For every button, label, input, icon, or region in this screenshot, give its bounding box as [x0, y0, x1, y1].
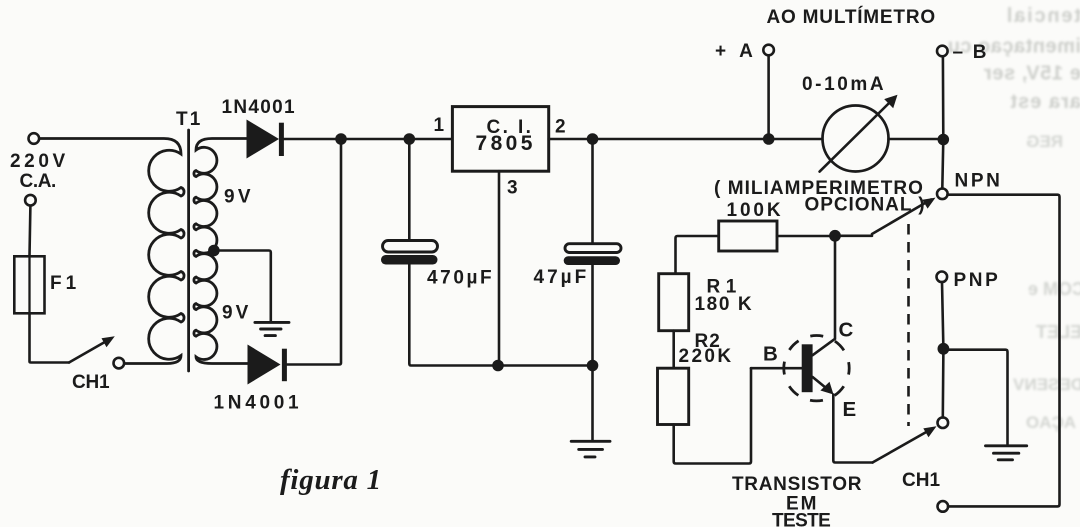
svg-text:9 V: 9 V: [224, 187, 251, 208]
wire: main +V rail (D1 to 7805 pin 1): [284, 138, 452, 141]
node: secondary center tap: [208, 245, 220, 257]
resistor R2 220K: [658, 368, 689, 424]
svg-text:1N4001: 1N4001: [214, 393, 303, 414]
wire: rail down to capacitor C2: [591, 139, 594, 244]
svg-text:47µF: 47µF: [534, 267, 590, 288]
node: collector / switch arm junction: [829, 230, 841, 242]
transistor Q1 base bar: [802, 344, 813, 392]
svg-text:F1: F1: [50, 273, 80, 294]
svg-text:3: 3: [507, 178, 518, 199]
ground (main, below C2): [571, 441, 610, 457]
node: C1 branch joins rail: [404, 133, 416, 145]
wire: +A terminal down to rail: [767, 55, 770, 139]
svg-text:E: E: [843, 398, 857, 421]
terminal +A: [763, 45, 774, 56]
wire: PNP chain to right ground: [943, 350, 1007, 444]
wire: C1 to ground bus: [409, 265, 592, 366]
svg-text:TESTE: TESTE: [772, 511, 830, 527]
svg-text:e 15V, ser: e 15V, ser: [983, 63, 1080, 85]
node: C2 branch joins rail: [587, 133, 599, 145]
svg-text:REG: REG: [1026, 132, 1063, 151]
terminal: 220V input phase: [29, 133, 40, 144]
wire: -B terminal down through rail to NPN contact: [942, 56, 943, 188]
wire: 100K left end down to R1: [676, 236, 719, 274]
svg-text:COM e: COM e: [1028, 279, 1080, 299]
svg-text:1N4001: 1N4001: [222, 97, 296, 118]
switch CH1b lower contact: [938, 417, 949, 428]
node: -B / NPN contact branch: [938, 134, 950, 146]
dashed divider line: [907, 224, 910, 426]
fuse F1: [14, 256, 44, 313]
svg-text:tencial: tencial: [1005, 5, 1080, 27]
svg-text:AO MULTÍMETRO: AO MULTÍMETRO: [767, 6, 936, 28]
svg-text:7805: 7805: [476, 132, 536, 155]
transistor Q1 under test: dashed envelope: [784, 336, 849, 401]
switch CH1b arm (to NPN): [872, 198, 936, 234]
svg-text:1: 1: [434, 115, 445, 136]
wire: 7805 pin 2 rail to meter: [549, 138, 823, 141]
meter M1 0-10mA: [820, 95, 898, 172]
wire: fuse to switch CH1a: [30, 313, 70, 362]
svg-text:B: B: [763, 343, 778, 366]
svg-text:NPN: NPN: [955, 171, 1003, 192]
svg-text:T1: T1: [176, 109, 203, 130]
svg-text:CH1: CH1: [902, 470, 940, 491]
svg-text:AÇAO: AÇAO: [1026, 413, 1076, 432]
node: ground branch on PNP chain: [938, 343, 950, 355]
node: C2 joins ground bus: [587, 360, 599, 372]
terminal: emitter return (bottom right): [938, 501, 949, 512]
svg-text:OPCIONAL ): OPCIONAL ): [805, 195, 926, 216]
transformer T1 secondary winding: [194, 139, 248, 364]
svg-text:0-10mA: 0-10mA: [802, 74, 886, 95]
resistor R3 100K: [719, 221, 777, 251]
svg-text:figura 1: figura 1: [280, 464, 382, 496]
svg-text:PNP: PNP: [954, 270, 1001, 291]
svg-text:100K: 100K: [727, 200, 784, 221]
node: D2 branch joins rail: [335, 133, 347, 145]
svg-text:180 K: 180 K: [695, 294, 754, 315]
wire: R2 bottom around to base: [674, 368, 751, 463]
ground (right, PNP chain): [986, 446, 1027, 460]
svg-text:220V: 220V: [10, 151, 69, 172]
wire: 100K right end to collector node: [777, 235, 835, 238]
wire: D2 branch (rail down and left to D2 cathode): [287, 139, 341, 365]
wire: center tap to ground: [214, 251, 271, 322]
wire: base lead: [751, 367, 802, 370]
resistor R1 180K: [659, 274, 689, 331]
svg-text:DESENV: DESENV: [1012, 375, 1080, 394]
wire: meter to -B node: [889, 138, 944, 141]
node: +A branch joins rail: [763, 133, 775, 145]
transformer T1 core: [187, 130, 190, 371]
node: pin 3 joins ground bus: [492, 360, 504, 372]
svg-text:ara est: ara est: [1010, 91, 1080, 113]
wire: collector node to switch arm pivot: [835, 235, 872, 238]
switch CH1a arm: [69, 336, 115, 362]
svg-text:+ A: + A: [715, 41, 757, 62]
wire: 7805 pin 3 down to ground bus: [498, 171, 501, 365]
wire: R1 to R2: [672, 331, 675, 369]
wire: neutral terminal down to fuse: [28, 206, 31, 257]
switch CH1b NPN contact: [937, 189, 948, 200]
switch CH1b PNP contact: [937, 272, 948, 283]
diode D2 1N4001 (bottom): [248, 345, 287, 385]
wire: rail down to capacitor C1: [408, 139, 411, 241]
wire: emitter down and right to switch CH1b lower arm: [833, 395, 872, 463]
svg-text:C: C: [839, 319, 854, 342]
transistor Q1 emitter lead with arrow: [813, 377, 834, 395]
switch CH1a contact: [114, 358, 125, 369]
wire: phase terminal to transformer primary + primary winding T1: [39, 139, 184, 364]
svg-text:ELET: ELET: [1036, 322, 1080, 342]
ground (center tap): [255, 322, 289, 335]
svg-text:2: 2: [555, 117, 566, 138]
svg-text:– B: – B: [953, 42, 989, 63]
IC U1 7805 regulator: [452, 107, 548, 172]
terminal: 220V input neutral: [25, 195, 36, 206]
svg-text:9V: 9V: [222, 303, 251, 324]
svg-text:TRANSISTOR: TRANSISTOR: [732, 474, 862, 495]
capacitor C1 470uF: [381, 241, 438, 265]
wire: collector lead down into transistor: [813, 236, 835, 355]
svg-text:470µF: 470µF: [427, 268, 494, 289]
terminal -B: [937, 46, 948, 57]
wire: C2 to ground bus and ground stem: [591, 265, 594, 441]
diode D1 1N4001 (top): [247, 120, 284, 159]
wire: NPN contact to right rail down to bottom terminal: [948, 195, 1060, 507]
wire: PNP contact down to lower contact: [942, 282, 943, 417]
svg-text:220K: 220K: [679, 346, 734, 367]
switch CH1b lower arm (to PNP side contact): [873, 426, 937, 462]
svg-text:C.A.: C.A.: [20, 171, 56, 192]
capacitor C2 47uF: [564, 244, 621, 265]
svg-text:CH1: CH1: [72, 372, 110, 393]
